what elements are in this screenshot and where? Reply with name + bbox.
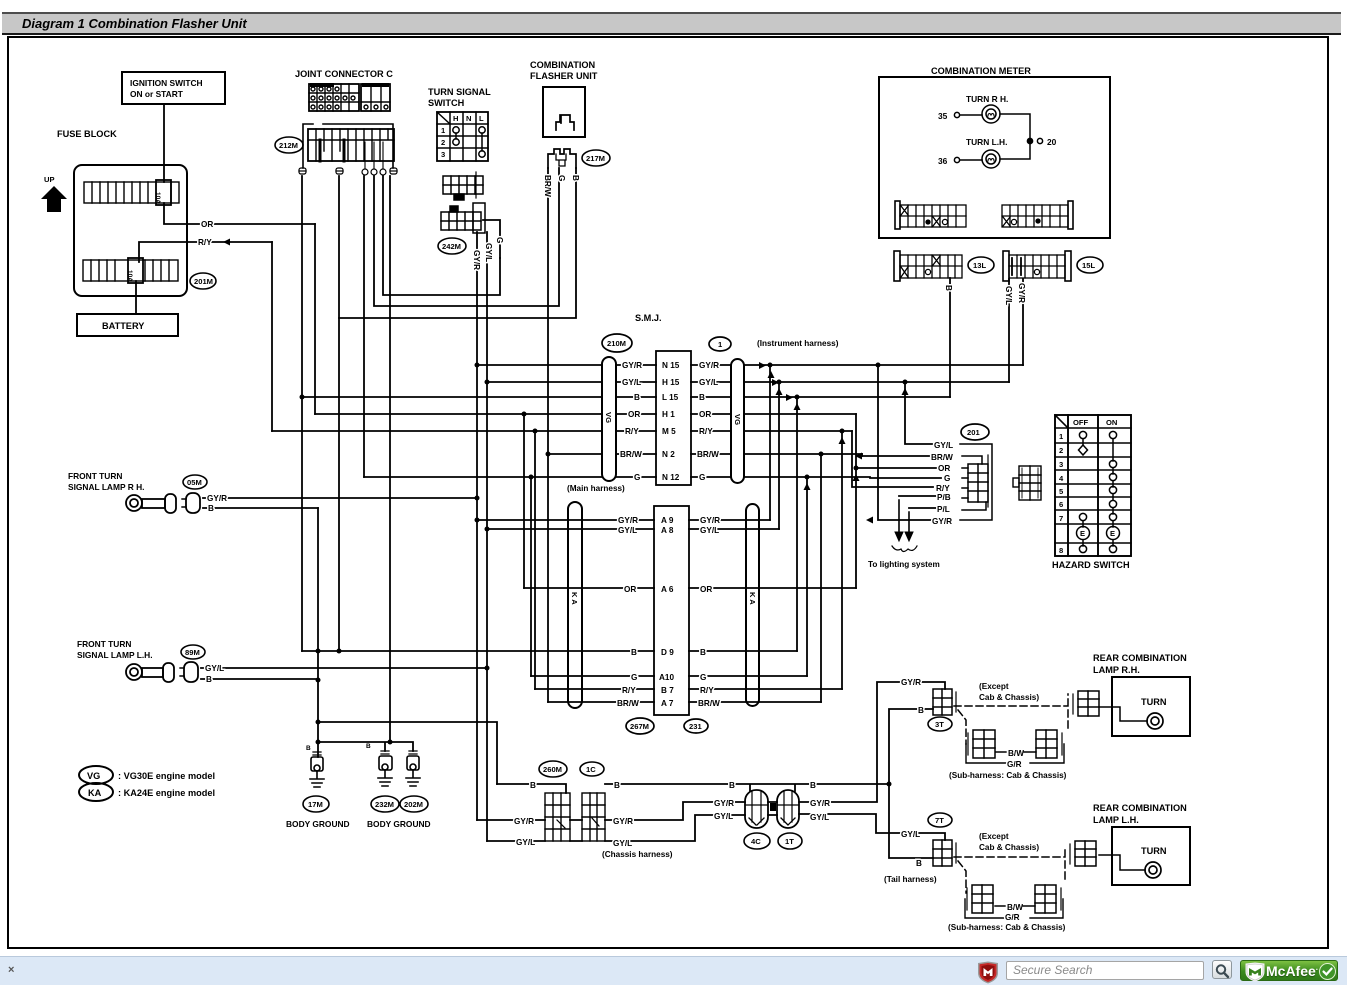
wire GY/L turn signal vertical: [486, 232, 488, 841]
connector 1C oval: [580, 762, 604, 776]
svg-text:(Sub-harness: Cab & Chassis): (Sub-harness: Cab & Chassis): [949, 771, 1067, 780]
wire meter B vertical: [949, 278, 951, 397]
to lighting system arrows: [892, 500, 917, 552]
wire GY/R 1T to rear RH: [799, 682, 945, 802]
wire B into 260M: [497, 784, 566, 793]
svg-text:COMBINATION: COMBINATION: [530, 60, 596, 70]
svg-text:TURN L.H.: TURN L.H.: [966, 137, 1007, 147]
row BR/W A7: [617, 699, 720, 708]
turn signal switch connector lower: [441, 203, 485, 233]
svg-text:H: H: [453, 114, 458, 123]
svg-text:15L: 15L: [1082, 261, 1095, 270]
svg-text:R/Y: R/Y: [700, 686, 714, 695]
sub-harness RH connector right: [1030, 730, 1064, 763]
svg-text:N 12: N 12: [662, 473, 680, 482]
svg-text:B/W: B/W: [1008, 749, 1024, 758]
joint connector C lower block: [303, 124, 394, 168]
svg-text:IGNITION SWITCH: IGNITION SWITCH: [130, 78, 203, 88]
wire GY/L into 260M: [487, 840, 545, 842]
wire meter GY/R vertical: [1022, 279, 1024, 365]
svg-text:GY/R: GY/R: [901, 678, 921, 687]
svg-text:P/B: P/B: [937, 493, 951, 502]
wire R/Y from fuse: [139, 242, 272, 262]
SMJ terminal block: [656, 351, 691, 485]
svg-text:K A: K A: [570, 592, 579, 605]
hazard ON column contacts: [1107, 431, 1120, 552]
wire G link N12-A10: [530, 477, 532, 676]
mcafee logo block: [1240, 960, 1338, 981]
lamp symbol LH: [126, 662, 198, 682]
svg-text:GY/R: GY/R: [932, 517, 952, 526]
wire meter GY/L vertical: [1008, 279, 1010, 382]
connector 201 oval: [961, 424, 989, 440]
svg-text:: VG30E engine model: : VG30E engine model: [118, 771, 215, 781]
svg-text:B: B: [631, 648, 637, 657]
wire B to rear lamps: [889, 709, 933, 858]
svg-text:GY/R: GY/R: [207, 494, 227, 503]
svg-text:13L: 13L: [973, 261, 986, 270]
svg-text:OR: OR: [938, 464, 950, 473]
row G N12: [634, 473, 705, 482]
wire ground junction to chassis B: [318, 722, 497, 784]
svg-text:3: 3: [441, 150, 445, 159]
svg-text:L 15: L 15: [662, 393, 679, 402]
svg-text:LAMP L.H.: LAMP L.H.: [1093, 815, 1139, 825]
wire R/Y link to B7: [841, 431, 843, 689]
svg-text:G: G: [631, 673, 637, 682]
svg-text:S.M.J.: S.M.J.: [635, 313, 662, 323]
connector 201M oval: [190, 273, 216, 289]
dashed link LH: [954, 849, 1065, 893]
svg-text:G: G: [495, 237, 504, 243]
connector 210M oval: [602, 334, 632, 352]
chassis connector 260M grid: [545, 793, 570, 841]
svg-text:35: 35: [938, 111, 948, 121]
svg-text:TURN R H.: TURN R H.: [966, 94, 1008, 104]
fuse strip lower: [83, 258, 178, 283]
wire GY/L front lamp LH: [201, 667, 487, 669]
svg-text:ON: ON: [1106, 418, 1117, 427]
svg-text:BR/W: BR/W: [620, 450, 642, 459]
row D9 horizontals: [568, 650, 797, 652]
svg-text:GY/L: GY/L: [810, 813, 829, 822]
wire ignition to fuse: [163, 104, 165, 182]
wire B front lamp RH: [203, 507, 318, 509]
SMJ right capsule VG: [731, 359, 744, 483]
wire joint pin6 to ground 232M: [389, 176, 391, 742]
legend VG oval: [79, 766, 113, 784]
svg-text:1: 1: [1059, 432, 1064, 441]
svg-text:10A: 10A: [126, 270, 133, 282]
row R/Y M5: [625, 427, 713, 436]
svg-text:GY/L: GY/L: [618, 526, 637, 535]
svg-text:G: G: [557, 175, 566, 181]
svg-text:GY/R: GY/R: [618, 516, 638, 525]
row GY/L H15: [622, 378, 718, 387]
body ground 202M: [406, 751, 420, 786]
svg-text:210M: 210M: [607, 339, 626, 348]
svg-text:GY/R: GY/R: [810, 799, 830, 808]
svg-text:231: 231: [689, 722, 702, 731]
wire joint pin4 link: [374, 168, 559, 306]
wire B flasher link: [339, 168, 576, 318]
svg-text:(Except: (Except: [979, 682, 1009, 691]
meter connector 13L strip: [894, 251, 962, 281]
svg-text:05M: 05M: [187, 478, 202, 487]
hazard OFF column contacts: [1077, 431, 1090, 552]
svg-text:B: B: [208, 504, 214, 513]
svg-text:BR/W: BR/W: [931, 453, 953, 462]
svg-text:B: B: [810, 781, 816, 790]
svg-text:GY/R: GY/R: [622, 361, 642, 370]
wire G link N12-A10 right: [806, 477, 808, 676]
svg-text:5: 5: [1059, 487, 1064, 496]
201 wire labels: [931, 441, 953, 526]
svg-text:B: B: [571, 175, 580, 181]
connector 231 oval: [684, 719, 708, 733]
svg-text:K A: K A: [748, 592, 757, 605]
svg-text:1T: 1T: [785, 837, 794, 846]
svg-text:G: G: [944, 474, 950, 483]
wire GY/R front lamp RH: [203, 497, 477, 499]
svg-text:FRONT TURN: FRONT TURN: [68, 471, 122, 481]
svg-text:D 9: D 9: [661, 648, 674, 657]
fuse block body: [74, 165, 187, 296]
wire P/L to lighting: [909, 507, 936, 509]
ignition switch box: [122, 72, 225, 104]
connector 1T oval: [778, 833, 802, 849]
wire OR link to 201: [856, 414, 936, 588]
svg-text:B 7: B 7: [661, 686, 674, 695]
row BR/W N2: [620, 450, 719, 459]
svg-text:GY/L: GY/L: [622, 378, 641, 387]
connector capsule 4C: [745, 790, 768, 828]
svg-text:N 15: N 15: [662, 361, 680, 370]
svg-text:GY/R: GY/R: [699, 361, 719, 370]
svg-text:REAR COMBINATION: REAR COMBINATION: [1093, 653, 1187, 663]
201 right-side wiring: [960, 444, 992, 520]
svg-text:VG: VG: [733, 414, 742, 425]
fuse strip upper: [84, 180, 179, 205]
svg-text:Cab & Chassis): Cab & Chassis): [979, 843, 1039, 852]
svg-text:BODY GROUND: BODY GROUND: [286, 819, 350, 829]
svg-text:B: B: [916, 859, 922, 868]
wire BR/W flasher vertical: [547, 168, 549, 702]
row A8 horizontals: [487, 528, 779, 530]
connector 260M oval: [539, 761, 567, 777]
row B D9: [631, 648, 706, 657]
rear lamp LH box: [1112, 827, 1190, 885]
joint connector pins: [299, 168, 397, 175]
svg-text:217M: 217M: [586, 154, 605, 163]
svg-text:BATTERY: BATTERY: [102, 321, 144, 331]
row B L15: [634, 393, 705, 402]
row OR horizontals: [315, 413, 856, 415]
wire R/Y vertical: [271, 242, 273, 431]
magnifier button: [1212, 960, 1232, 979]
svg-text:BODY GROUND: BODY GROUND: [367, 819, 431, 829]
svg-text:GY/L: GY/L: [1004, 286, 1013, 305]
row B horizontals: [302, 396, 950, 398]
svg-text:(Instrument harness): (Instrument harness): [757, 339, 839, 348]
wire B to KA row D9: [302, 650, 568, 652]
svg-text:G: G: [700, 673, 706, 682]
connector 89M oval: [181, 645, 205, 659]
row A9 horizontals: [477, 519, 770, 521]
wire GY/R link N15-A9: [769, 365, 771, 520]
wire battery to fuse: [135, 281, 137, 314]
svg-text:1: 1: [441, 126, 446, 135]
svg-text:OR: OR: [628, 410, 640, 419]
svg-text:1C: 1C: [586, 765, 596, 774]
wire OR vertical: [314, 224, 316, 414]
window title bar: [2, 12, 1341, 35]
svg-text:Cab & Chassis): Cab & Chassis): [979, 693, 1039, 702]
connector 242M oval: [438, 238, 466, 254]
row OR A6: [624, 585, 712, 594]
rear lamp RH bulb: [1099, 707, 1163, 729]
wire GY/R into 260M: [477, 819, 545, 821]
wire OR link H1-A6: [523, 414, 525, 588]
svg-text:E: E: [1080, 529, 1085, 538]
svg-text:GY/R: GY/R: [1017, 283, 1026, 303]
svg-text:R/Y: R/Y: [625, 427, 639, 436]
svg-text:B: B: [700, 648, 706, 657]
rear lamp LH bulb: [1099, 855, 1161, 878]
turn signal switch connector upper: [443, 172, 483, 200]
wire G turn signal lead: [483, 220, 500, 258]
joint connector C upper grid: [309, 83, 390, 111]
row OR H1: [628, 410, 711, 419]
svg-text:GY/L: GY/L: [934, 441, 953, 450]
svg-text:212M: 212M: [279, 141, 298, 150]
svg-text:P/L: P/L: [937, 505, 950, 514]
row A6 horizontals: [524, 587, 856, 589]
svg-text:LAMP R.H.: LAMP R.H.: [1093, 665, 1140, 675]
chassis connector 1C grid: [582, 793, 605, 841]
svg-text:B: B: [366, 743, 371, 750]
connector 15L oval: [1077, 257, 1103, 273]
dashed link RH: [954, 694, 1068, 744]
svg-text:B: B: [614, 781, 620, 790]
svg-text:R/Y: R/Y: [198, 238, 212, 247]
svg-text:260M: 260M: [543, 765, 562, 774]
row GY/R A9: [618, 516, 720, 525]
svg-text:GY/L: GY/L: [714, 812, 733, 821]
front turn signal lamp RH: [68, 471, 144, 492]
201 connector body: [968, 455, 988, 507]
wire B joint pin1 down: [301, 176, 303, 651]
flow arrows: [223, 239, 909, 524]
svg-text:To lighting system: To lighting system: [868, 560, 940, 569]
svg-text:202M: 202M: [404, 800, 423, 809]
svg-text:: KA24E engine model: : KA24E engine model: [118, 788, 215, 798]
svg-text:A10: A10: [659, 673, 674, 682]
sub-harness RH connector left: [966, 730, 1006, 763]
svg-text:H 15: H 15: [662, 378, 680, 387]
svg-text:BR/W: BR/W: [543, 175, 552, 197]
svg-text:L: L: [479, 114, 484, 123]
connector 7T grid: [933, 840, 956, 866]
wire GY/L 1C to 4C: [605, 815, 777, 841]
junction dots: [300, 363, 908, 787]
svg-text:A 9: A 9: [661, 516, 674, 525]
svg-text:GY/L: GY/L: [699, 378, 718, 387]
svg-text:SIGNAL LAMP L.H.: SIGNAL LAMP L.H.: [77, 650, 153, 660]
svg-text:GY/R: GY/R: [714, 799, 734, 808]
svg-text:GY/L: GY/L: [613, 839, 632, 848]
svg-text:VG: VG: [604, 412, 613, 423]
row B7 horizontals: [535, 688, 842, 690]
wire B link L15-D9: [796, 397, 798, 651]
svg-text:VG: VG: [87, 771, 100, 781]
hazard switch table: [1055, 415, 1131, 556]
svg-text:7: 7: [1059, 514, 1063, 523]
svg-text:(Chassis harness): (Chassis harness): [602, 850, 673, 859]
svg-text:201: 201: [967, 428, 980, 437]
wire B front lamp LH: [201, 678, 318, 680]
svg-text:G: G: [634, 473, 640, 482]
svg-text:2: 2: [441, 138, 445, 147]
svg-text:G/R: G/R: [1007, 760, 1022, 769]
wire B to ground 17M: [317, 508, 319, 757]
sub-harness LH connector right: [1030, 885, 1063, 918]
connector 217M oval: [582, 150, 610, 166]
svg-text:B: B: [918, 706, 924, 715]
svg-text:TURN: TURN: [1141, 697, 1167, 707]
svg-text:3: 3: [1059, 460, 1063, 469]
svg-text:3T: 3T: [935, 720, 944, 729]
combination flasher unit box: [543, 87, 585, 137]
search input: [1006, 961, 1204, 980]
svg-text:(Tail harness): (Tail harness): [884, 875, 937, 884]
svg-text:OR: OR: [624, 585, 636, 594]
connector 212M oval: [275, 137, 303, 153]
front turn signal lamp LH: [77, 639, 153, 660]
row G horizontals: [364, 477, 941, 478]
wire B joint pin2 down: [338, 176, 340, 651]
node 20: [1027, 138, 1042, 143]
connector capsule 1T: [777, 790, 799, 828]
mcafee small shield icon: [976, 961, 1000, 984]
wire OR from fuse: [164, 203, 315, 224]
wire links 260M-1C: [570, 820, 582, 841]
svg-text:(Main harness): (Main harness): [567, 484, 625, 493]
svg-text:10A: 10A: [154, 192, 161, 204]
svg-text:B: B: [634, 393, 640, 402]
lamp symbol RH: [126, 493, 200, 513]
svg-text:N 2: N 2: [662, 450, 675, 459]
KA terminal block: [654, 506, 689, 715]
svg-text:GY/L: GY/L: [205, 664, 224, 673]
svg-text:8: 8: [1059, 546, 1063, 555]
row R/Y horizontals: [272, 430, 852, 432]
wire R/Y branch B7: [534, 431, 536, 689]
sub-harness LH connector left: [965, 885, 1005, 918]
svg-text:89M: 89M: [185, 648, 200, 657]
svg-text:GY/L: GY/L: [901, 830, 920, 839]
row GY/L horizontals: [487, 381, 1009, 383]
svg-text:GY/L: GY/L: [700, 526, 719, 535]
connector 3T oval: [928, 717, 952, 731]
svg-text:1: 1: [718, 340, 723, 349]
legend KA oval: [79, 783, 113, 801]
connector 05M oval: [183, 475, 207, 489]
svg-text:GY/R: GY/R: [700, 516, 720, 525]
row GY/R N15: [622, 361, 719, 370]
svg-text:M 5: M 5: [662, 427, 676, 436]
svg-text:B: B: [699, 393, 705, 402]
row A10 horizontals: [531, 675, 807, 677]
svg-text:N: N: [466, 114, 471, 123]
svg-text:267M: 267M: [630, 722, 649, 731]
svg-text:(Sub-harness: Cab & Chassis): (Sub-harness: Cab & Chassis): [948, 923, 1066, 932]
svg-text:B: B: [944, 285, 953, 291]
battery box: [77, 314, 178, 336]
svg-text:B: B: [306, 745, 311, 752]
svg-text:COMBINATION METER: COMBINATION METER: [931, 66, 1031, 76]
svg-text:17M: 17M: [308, 800, 323, 809]
svg-text:2: 2: [1059, 446, 1063, 455]
wire GY/R turn signal vertical: [476, 232, 478, 820]
row G A10: [631, 673, 706, 682]
svg-text:B: B: [530, 781, 536, 790]
svg-text:G/R: G/R: [1005, 913, 1020, 922]
svg-text:R/Y: R/Y: [699, 427, 713, 436]
wire G joint pin3 down: [363, 176, 365, 477]
status bar: [0, 956, 1347, 985]
svg-text:A 7: A 7: [661, 699, 674, 708]
rear lamp RH connector: [1073, 691, 1099, 716]
meter connector 15L strip: [1003, 251, 1071, 281]
svg-text:G: G: [699, 473, 705, 482]
wire GY/L 1T to rear LH: [799, 814, 945, 840]
row A7 horizontals: [548, 701, 821, 703]
wire ground bus: [318, 742, 413, 751]
row BR/W horizontals: [548, 454, 929, 456]
svg-text:FUSE BLOCK: FUSE BLOCK: [57, 129, 117, 139]
svg-text:GY/L: GY/L: [516, 838, 535, 847]
wire GY/L to 201: [905, 382, 932, 444]
row GY/L A8: [618, 526, 719, 535]
KA right capsule: [746, 504, 759, 706]
svg-text:GY/R: GY/R: [613, 817, 633, 826]
flasher connector: [548, 149, 576, 168]
svg-text:BR/W: BR/W: [617, 699, 639, 708]
svg-text:7T: 7T: [935, 816, 944, 825]
svg-text:ON or START: ON or START: [130, 89, 184, 99]
combination meter box: [879, 77, 1110, 238]
body ground 232M: [378, 751, 392, 786]
svg-text:OR: OR: [201, 220, 213, 229]
wire P/B to lighting: [899, 495, 936, 497]
svg-text:GY/L: GY/L: [484, 243, 493, 262]
svg-text:20: 20: [1047, 137, 1057, 147]
connector 4C oval: [744, 833, 770, 849]
svg-text:REAR COMBINATION: REAR COMBINATION: [1093, 803, 1187, 813]
wire BR/W link to A7: [820, 454, 822, 702]
svg-text:A 8: A 8: [661, 526, 674, 535]
rear lamp LH connector: [1070, 841, 1096, 866]
wire joint pin5 G turn link: [383, 176, 500, 295]
svg-text:BR/W: BR/W: [698, 699, 720, 708]
svg-text:4C: 4C: [751, 837, 761, 846]
svg-text:SIGNAL LAMP R H.: SIGNAL LAMP R H.: [68, 482, 144, 492]
connector 267M oval: [626, 718, 654, 734]
svg-text:232M: 232M: [375, 800, 394, 809]
svg-text:E: E: [1110, 529, 1115, 538]
connector 13L oval: [968, 257, 994, 273]
